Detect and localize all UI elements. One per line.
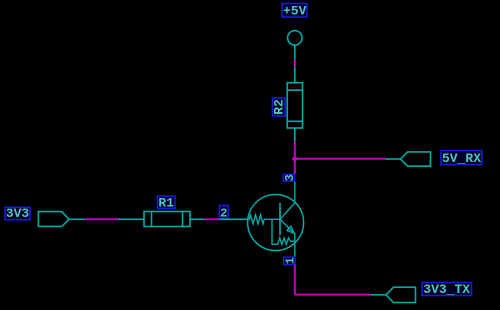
- transistor Q1 base pin 2 line: [220, 218, 250, 220]
- svg-text:R1: R1: [158, 195, 174, 210]
- port 3V3_TX: [371, 287, 416, 302]
- power port +5V label: [282, 4, 307, 19]
- svg-text:3V3_TX: 3V3_TX: [423, 282, 470, 297]
- transistor Q1 internal base-emitter resistor zigzag: [272, 219, 295, 244]
- resistor R2: [287, 67, 302, 142]
- label 3V3_TX: [422, 282, 472, 297]
- pin 1 label: [284, 257, 298, 265]
- junction: [292, 155, 299, 162]
- port 5V_RX: [385, 152, 431, 166]
- label 5V_RX: [441, 151, 482, 166]
- resistor R1: [118, 212, 205, 227]
- label 3V3: [5, 206, 30, 221]
- power port +5V circle symbol: [288, 31, 302, 60]
- wire R2 to collector: [294, 142, 296, 175]
- svg-text:+5V: +5V: [283, 4, 307, 19]
- port 3V3: [38, 212, 85, 227]
- wire 3V3 port to R1: [85, 218, 118, 220]
- transistor Q1 collector line: [280, 181, 295, 219]
- wire emitter down: [294, 265, 296, 295]
- R2 label: [272, 98, 287, 116]
- svg-text:5V_RX: 5V_RX: [442, 151, 481, 166]
- wire bottom horizontal: [295, 294, 371, 296]
- wire power to R2: [294, 60, 296, 67]
- svg-text:1: 1: [284, 257, 298, 264]
- transistor Q1 circle: [248, 195, 304, 251]
- pin 3 label: [283, 174, 297, 181]
- svg-text:3: 3: [283, 174, 297, 181]
- transistor Q1 base bar: [279, 203, 281, 235]
- R1 label: [158, 195, 176, 210]
- wire junction to 5V_RX port: [295, 158, 385, 160]
- transistor Q1 emitter arrow: [287, 226, 294, 233]
- svg-text:3V3: 3V3: [6, 206, 30, 221]
- wire R1 to base pin: [205, 218, 220, 220]
- pin 2 label: [219, 205, 228, 220]
- transistor Q1 internal base resistor zigzag: [249, 215, 280, 224]
- transistor Q1 emitter line: [280, 219, 295, 257]
- svg-text:R2: R2: [272, 99, 287, 115]
